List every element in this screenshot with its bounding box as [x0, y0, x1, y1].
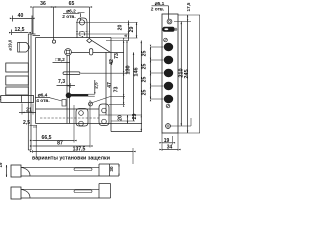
svg-text:66,5: 66,5 — [42, 135, 52, 141]
svg-text:245: 245 — [184, 69, 190, 78]
svg-text:4 отв.: 4 отв. — [36, 98, 49, 104]
svg-text:2,5: 2,5 — [94, 82, 99, 89]
svg-text:87: 87 — [57, 141, 63, 147]
svg-text:19: 19 — [0, 162, 3, 167]
svg-text:42: 42 — [109, 59, 115, 65]
svg-text:20: 20 — [118, 25, 124, 31]
svg-text:16: 16 — [0, 96, 2, 100]
svg-text:65: 65 — [69, 1, 75, 7]
svg-text:73: 73 — [114, 53, 120, 59]
svg-text:146: 146 — [134, 67, 140, 76]
svg-text:12,5: 12,5 — [15, 27, 25, 33]
svg-text:варианты установки защелки: варианты установки защелки — [32, 155, 110, 161]
svg-text:25: 25 — [142, 90, 148, 96]
svg-text:17,5: 17,5 — [186, 2, 191, 11]
svg-text:7,3: 7,3 — [58, 79, 65, 85]
svg-text:25: 25 — [142, 77, 148, 83]
svg-text:130: 130 — [126, 65, 132, 74]
svg-text:73: 73 — [114, 87, 120, 93]
svg-text:2 отв.: 2 отв. — [151, 6, 164, 12]
svg-text:29: 29 — [132, 114, 138, 120]
svg-text:8: 8 — [123, 34, 128, 37]
svg-text:2 отв.: 2 отв. — [62, 14, 75, 20]
svg-text:2,5: 2,5 — [23, 120, 30, 126]
svg-text:25: 25 — [142, 64, 148, 70]
svg-text:36: 36 — [40, 1, 46, 7]
svg-text:29: 29 — [129, 27, 135, 33]
svg-text:47: 47 — [107, 82, 113, 88]
svg-text:40: 40 — [18, 13, 24, 19]
svg-text:137,5: 137,5 — [73, 146, 86, 152]
svg-text:20: 20 — [117, 115, 123, 121]
svg-text:⌀19,0: ⌀19,0 — [8, 39, 13, 50]
svg-text:25: 25 — [142, 51, 148, 57]
svg-text:30: 30 — [109, 166, 114, 172]
